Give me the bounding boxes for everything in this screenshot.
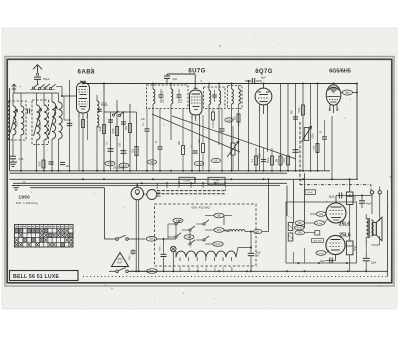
tube 6AB8 plate bottom (79, 98, 87, 100)
wire T2 feeds (208, 84, 210, 88)
capacitor left a (49, 161, 54, 163)
wire coil tops to switches (12, 93, 14, 101)
wire drop into output b (293, 179, 295, 223)
wire AVC bus lower (10, 172, 288, 174)
capacitor 0.1 ifstage (193, 150, 198, 152)
resistor oval pi 4 (316, 251, 326, 256)
wire 6U7G pin drops (191, 119, 193, 171)
wire 6G5 drop (331, 116, 333, 179)
wire oval links (205, 229, 214, 231)
wire tall drop x104 (103, 84, 105, 171)
capacitor 50pF antenna (34, 76, 41, 78)
tube 6Q7G cathode (260, 101, 268, 103)
filter choke (229, 230, 245, 232)
resistor 020 oval (184, 235, 194, 240)
tube 6G5 eye rim (328, 87, 339, 90)
tube 25L6 upper (326, 203, 346, 223)
antenna symbol (37, 65, 39, 73)
wire grid 6AB8 osc link (63, 96, 65, 120)
resistor 300 ifstage (202, 144, 205, 153)
capacitor T2 (212, 94, 217, 96)
wire drop x136 (136, 112, 138, 171)
capacitor 0.1 out b (288, 233, 293, 241)
wire mains upper 2 (157, 238, 176, 240)
warning triangle 250V (112, 253, 129, 267)
wire 6G5 top (333, 84, 335, 85)
switch bank contact 3 (189, 229, 191, 231)
capacitor 8uF lower (326, 260, 336, 262)
wire 6AB8 anode up (82, 83, 84, 84)
switch bank contact 4 (189, 243, 191, 245)
coil T3 primary (232, 89, 234, 104)
capacitor chain extra a (108, 119, 113, 121)
wire output bottom (293, 252, 295, 263)
wire drop x310 (310, 84, 312, 171)
output stage box (286, 202, 357, 263)
tube 6U7G plate (192, 93, 201, 95)
switch wave-band 3 (44, 87, 46, 89)
resistor 50k oval out (295, 221, 305, 226)
dial cord diagonal 2 (172, 116, 296, 159)
wire terminal drops (371, 194, 373, 214)
wire speaker link (379, 218, 381, 222)
coil box L1/L2 (aerial, shielded) (9, 101, 27, 140)
tube 6G5 envelope (326, 85, 341, 105)
capacitor 0.05 input (10, 155, 16, 157)
tube 6Q7G envelope (255, 88, 272, 105)
resistor 50k T3 (237, 114, 240, 122)
wire B+ riser (268, 179, 270, 231)
junction dots B+ bus (82, 178, 84, 180)
wire 6AB8 grid (61, 87, 63, 97)
wire drop x117 (116, 100, 118, 171)
terminal output 1 (370, 191, 373, 194)
wire tube plates (335, 196, 337, 204)
capacitor padder (67, 122, 73, 124)
tube 6U7G cathode (193, 106, 200, 108)
oval 50k mid (147, 160, 156, 164)
inner border frame (ink) (7, 59, 392, 282)
output transformer secondary (371, 220, 373, 236)
tube 6AB8 cathode top (80, 94, 87, 96)
junction dots mains bus (135, 270, 137, 272)
capacitor 0.1 chain (108, 148, 114, 150)
resistor 500k (301, 105, 304, 115)
title box BELL 56 51 LUXE (10, 271, 79, 281)
switch mains upper (116, 238, 119, 241)
wire drop x123 (123, 112, 125, 171)
power section shield box (155, 204, 257, 266)
capacitor electrolytic upper (346, 192, 353, 205)
coil T2 secondary (219, 91, 221, 105)
wire 6AB8 pin drops (78, 117, 80, 171)
output transformer core (367, 218, 369, 238)
wire pot drop (232, 155, 234, 171)
wire 6Q7G top (263, 84, 265, 89)
oval 100pF mid (211, 158, 220, 162)
capacitor 5pF coupling (166, 74, 168, 75)
switch wave-band 2 (38, 87, 40, 89)
capacitor 6AB8 screen (145, 128, 150, 130)
wire top HT rail (83, 83, 357, 85)
capacitor chain extra b (121, 121, 126, 123)
tube 6G5 pins (329, 105, 331, 112)
wire drop x130 (129, 104, 131, 171)
coil T1 secondary (171, 89, 173, 104)
capacitor 0.1uF oval (119, 163, 129, 168)
tube 25L6 upper cathode (331, 217, 341, 219)
switch wave-band 1 (32, 87, 34, 89)
wire lamp link (144, 193, 147, 195)
tube 25L6 upper plate (331, 206, 342, 208)
capacitor electrolytic lower (346, 241, 353, 255)
wire chassis bus (13, 182, 287, 184)
tube 6Q7G grid (258, 97, 269, 99)
IF transformer T2 box (204, 87, 226, 109)
tube 25L6 lower plate (331, 239, 341, 241)
speaker (372, 223, 376, 236)
junction ticks chassis mid (166, 182, 168, 184)
capacitor 0.1uF coupling c (305, 190, 316, 195)
switch wave-band 4 (49, 87, 51, 89)
tube 25L6 upper grids (330, 210, 343, 212)
capacitor 0.1 out a (288, 223, 293, 231)
capacitor 50pF agc (322, 136, 327, 138)
coil T3 secondary (239, 89, 241, 104)
capacitor T1 secondary (177, 94, 182, 96)
fuse 500 lower (147, 269, 157, 274)
capacitor 25uF (250, 232, 252, 253)
wire lamp drop (135, 200, 137, 272)
switch osc contact a (112, 114, 114, 116)
tube 6U7G grids (191, 96, 201, 98)
tube 6U7G grid cap (194, 87, 198, 89)
dial cord diagonal 1 (152, 114, 240, 152)
wire drop x303 (302, 84, 304, 171)
coil box L3/L4 (aerial, shielded) (32, 100, 49, 145)
wire earth to row (13, 92, 15, 93)
resistor 0.5M oval out (295, 226, 305, 230)
fuse 500 upper (146, 237, 156, 242)
tube 6Q7G plate (259, 94, 268, 96)
wire det couple (267, 150, 269, 152)
wire drop into output c (304, 173, 306, 228)
tube 6AB8 grids bottom (79, 101, 88, 103)
coil oscillator 6AB8 (97, 101, 99, 113)
capacitor 40uF (359, 200, 365, 202)
wire antenna to switch (37, 79, 39, 85)
IF transformer T3 box (228, 86, 243, 109)
capacitor 10uF (365, 252, 367, 258)
ground input filter (9, 161, 17, 163)
outer border frame (gray) (5, 57, 394, 287)
tube 6AB8 pins (78, 113, 80, 117)
tube 6AB8 plate top (79, 86, 87, 88)
wire heater ends (172, 252, 174, 271)
trimmer arrow L5 (49, 106, 57, 135)
wire chassis dashed right (300, 184, 371, 186)
wire coil bottoms (12, 148, 14, 155)
wire mains lower stub left (109, 270, 116, 272)
lamp scale B (131, 187, 143, 199)
resistor 5000 osc plate (82, 120, 85, 128)
wire grid coupling run (167, 73, 195, 75)
coil T2 primary (209, 91, 211, 105)
scan dust specks (253, 37, 256, 40)
wire mains lower bus (130, 270, 388, 272)
wire link T1 bottom (170, 140, 172, 142)
resistor 601 oval (214, 228, 224, 233)
resistor 100k drop (286, 156, 289, 165)
capacitor 5000 mains (163, 239, 165, 254)
wire drop x295 (295, 84, 297, 171)
oval 0.5M mid (194, 161, 204, 165)
wire drop x317 (317, 84, 319, 171)
wire electrolytic feeds (349, 179, 351, 192)
wire B+ bus (10, 178, 359, 180)
parts usage table (15, 225, 74, 248)
resistor det 1 (255, 156, 258, 165)
tube 6AB8 envelope (77, 83, 90, 114)
junction dots AVC bus (20, 170, 22, 172)
junction dots HT rail (82, 83, 84, 85)
trimmer arrow L1 (10, 109, 17, 133)
coil L1 (13, 106, 16, 135)
resistor 100 T2 bottom (212, 112, 215, 120)
oval 100 T3 bottom (225, 118, 233, 122)
wire top link out (346, 195, 372, 197)
wire drop x110 (110, 112, 112, 171)
wire mains upper (128, 238, 145, 240)
resistor 450 oval (173, 218, 183, 223)
wire heater dotted return (83, 276, 388, 278)
output transformer primary (366, 219, 368, 238)
resistor 5000 chain (115, 127, 118, 136)
resistor 25 oval (245, 231, 253, 233)
wire right inner drop (387, 190, 389, 277)
wire 6U7G top (194, 74, 196, 88)
wire switch links (175, 225, 177, 236)
tube 6G5 target shade (329, 86, 338, 93)
switch bank contact 5 (203, 223, 205, 225)
wire 6Q7G pin drops (259, 112, 261, 171)
tube 25L6 lower (326, 235, 345, 254)
resistor 1000 (102, 125, 105, 134)
ground chassis left (12, 185, 20, 187)
capacitor 100pF det (220, 128, 225, 130)
wire det drops (255, 148, 257, 171)
shield band dashed (157, 190, 226, 192)
tube 6AB8 grids top (79, 89, 88, 91)
wire switch row (30, 89, 55, 91)
resistor 5000 left (42, 160, 45, 168)
capacitor 100uF lamp (131, 250, 136, 252)
wire drop x288 (287, 84, 289, 171)
switch bank contact 2 (175, 236, 177, 238)
capacitor T1 primary (159, 94, 164, 96)
coil L4 (44, 105, 48, 140)
wire T1 feeds (152, 84, 154, 86)
tube 6U7G envelope (190, 90, 203, 115)
resistor 50k oval out 2 (295, 230, 305, 234)
tube 25L6 lower grids (330, 242, 342, 244)
wire T3 feeds (231, 84, 233, 86)
wire pi links (305, 222, 315, 224)
resistor 600 oval (214, 213, 224, 218)
capacitor drop x295 (293, 149, 299, 151)
pickup PU oval (213, 242, 223, 247)
capacitor 0.1 oval pi 2 (315, 221, 325, 226)
tube 6Q7G diode plates (258, 91, 262, 93)
coil T1 primary (153, 89, 155, 104)
capacitor 200pF det (293, 116, 298, 118)
ballast heater string (176, 251, 236, 257)
resistor 0.5M agc (316, 144, 319, 153)
resistor 10k oval pi 1 (316, 212, 326, 217)
tube 6G5 mid line (327, 96, 340, 98)
potentiometer volume (231, 143, 235, 155)
heater string taps (179, 257, 181, 261)
wire left edge drop (9, 88, 11, 171)
wire terminal feeds (379, 187, 381, 191)
resistor 0.5M chain (135, 147, 138, 156)
trimmer arrow L3 (34, 108, 42, 136)
coil L6 osc (59, 102, 63, 139)
capacitor link boxes (26, 109, 28, 114)
potentiometer 500k agc (304, 128, 309, 141)
capacitor 0.1uF coupling a (179, 177, 195, 183)
switch osc contact b (118, 114, 120, 116)
wire lamp stem (136, 183, 138, 187)
pilot lamp heater (171, 246, 176, 251)
wire mains feed from chassis (30, 187, 105, 189)
tube 6U7G pins (191, 115, 193, 119)
capacitor 100pF chain (121, 150, 127, 152)
resistor 2M det (279, 156, 282, 165)
capacitor diode coupling (251, 78, 253, 84)
switch bank contact 1 (175, 223, 177, 225)
capacitor 8uF upper (336, 195, 346, 197)
wire drop x280 (280, 84, 282, 171)
capacitor 0.1uF coupling b (208, 177, 225, 185)
lamp dial 2 (147, 190, 157, 200)
IF transformer T1 box (147, 85, 189, 109)
capacitor left b (60, 161, 65, 163)
earth terminal (13, 84, 15, 92)
tube 6AB8 cathode bottom (80, 106, 87, 108)
tube 25L6 lower cathode (331, 249, 340, 251)
resistor 4.7k oval (105, 161, 115, 166)
resistor 1M eye (341, 92, 343, 94)
terminal output 2 (378, 191, 381, 194)
coil L5 osc (52, 102, 56, 139)
capacitor osc pad 2 (97, 108, 102, 110)
wire right drop x358 (356, 84, 358, 180)
wire drop into output a (286, 186, 288, 217)
resistor det 3 (271, 156, 274, 165)
capacitor cap rect pi (315, 231, 320, 235)
wire link y112 (104, 111, 137, 113)
shield dashed vertical x300 (299, 122, 301, 185)
resistor 25k osc (182, 146, 185, 155)
wire T3 resistor drop (238, 122, 240, 171)
wire mains lower stub (128, 270, 146, 272)
capacitor det 2 (261, 158, 266, 160)
wire choke left (224, 231, 230, 232)
resistor 50k chain (128, 124, 131, 133)
switch bank contact 6 (203, 239, 205, 241)
tube 6G5 cathode (331, 101, 337, 103)
coil L2 (21, 106, 24, 135)
coil L3 (37, 105, 41, 140)
tube 6Q7G pins (259, 105, 261, 113)
switch mains lower (116, 270, 119, 273)
capacitor 30pF osc (158, 146, 163, 148)
wire AVC bus (10, 170, 331, 172)
